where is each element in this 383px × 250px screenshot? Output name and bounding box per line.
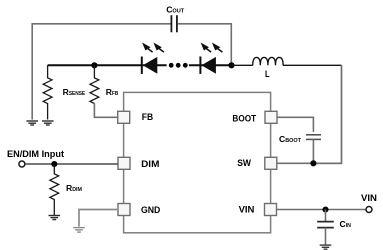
wire BOOT pin to CBOOT <box>277 117 313 132</box>
wire EN/DIM input to DIM pin <box>25 163 118 165</box>
pin DIM <box>118 157 130 169</box>
capacitor CIN <box>317 222 334 228</box>
LED D2 <box>200 43 222 74</box>
ground (CIN) <box>320 245 332 249</box>
node ellipsis dots <box>169 63 188 68</box>
ground (RSENSE) <box>42 121 54 125</box>
wire inductor to SW node <box>314 65 342 163</box>
svg-text:DIM: DIM <box>141 159 160 169</box>
svg-text:VIN: VIN <box>361 193 377 203</box>
wire SW pin <box>277 162 342 164</box>
resistor RSENSE <box>43 65 52 119</box>
svg-text:VIN: VIN <box>239 205 255 215</box>
svg-text:L: L <box>265 69 270 79</box>
pin BOOT <box>265 111 277 123</box>
wire CIN drop <box>325 210 327 222</box>
node EN/DIM input terminal <box>19 161 25 167</box>
pin FB <box>118 111 130 123</box>
inductor L <box>232 57 342 65</box>
capacitor COUT <box>171 15 177 32</box>
capacitor CBOOT <box>306 135 321 140</box>
op-amp U1 IC body <box>124 92 271 232</box>
pin SW <box>265 157 277 169</box>
wire CIN to ground <box>325 228 327 245</box>
node RDIM junction <box>51 161 57 167</box>
node LED output junction <box>228 62 234 68</box>
resistor RDIM <box>50 164 59 215</box>
wire GND pin stub <box>79 210 118 227</box>
svg-text:EN/DIM Input: EN/DIM Input <box>7 149 65 160</box>
svg-text:FB: FB <box>142 112 154 122</box>
ground (left rail) <box>26 121 38 125</box>
wire VIN pin to VIN terminal <box>277 209 366 211</box>
node RFB junction <box>91 62 97 68</box>
node SW junction <box>310 160 316 166</box>
resistor RFB <box>90 65 99 103</box>
wire top rail left segment and left drop <box>32 24 171 120</box>
svg-text:SW: SW <box>237 158 251 168</box>
LED D1 <box>142 43 164 74</box>
node VIN terminal <box>366 207 372 213</box>
pin GND <box>118 204 130 216</box>
svg-text:GND: GND <box>141 205 161 215</box>
ground (GND pin) <box>73 228 85 233</box>
wire LED string rail <box>48 64 232 66</box>
wire top rail right segment down to LED string <box>178 24 232 64</box>
svg-text:BOOT: BOOT <box>232 113 256 123</box>
wire RFB to FB pin <box>94 103 117 117</box>
pin VIN <box>265 204 277 216</box>
node CIN junction <box>322 206 328 212</box>
ground (RDIM) <box>49 216 61 220</box>
wire CBOOT to SW node <box>312 139 314 163</box>
